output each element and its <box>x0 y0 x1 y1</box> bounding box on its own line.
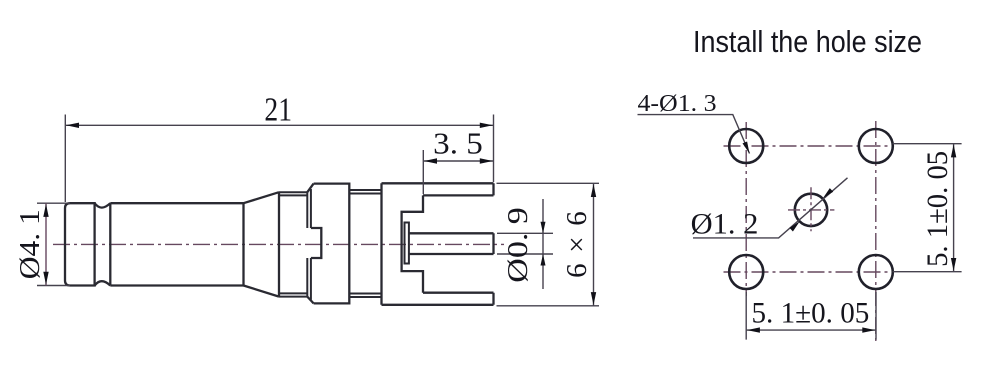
dim 21 line <box>65 124 493 126</box>
bottom pin upperside <box>423 293 494 305</box>
body cavity step <box>402 195 423 292</box>
hole pattern: row/column centerlines <box>724 145 895 147</box>
svg-text:5. 1±0. 05: 5. 1±0. 05 <box>921 151 954 267</box>
body top edge with top pin <box>382 182 494 184</box>
main cylinder <box>110 203 243 285</box>
dim 21 extension right <box>493 115 495 183</box>
label 4-dia1.3 arrow <box>743 142 750 154</box>
dim dia4.1 extensions <box>37 203 70 285</box>
dim dia0.9 line <box>542 199 544 289</box>
svg-text:3. 5: 3. 5 <box>433 126 483 161</box>
neck section double lines <box>349 190 381 297</box>
ring verticals interrupted by slot <box>307 189 311 300</box>
svg-text:Ø1. 2: Ø1. 2 <box>691 208 759 241</box>
collar chamfer bottom <box>307 297 313 304</box>
label 4-dia1.3 leader <box>638 115 750 154</box>
hole top-right <box>859 129 893 163</box>
dim right 5.1 line <box>953 144 955 272</box>
dim right 5.1 extensions <box>893 144 962 272</box>
body bottom edge with bottom pin <box>382 304 494 306</box>
collar block <box>314 184 350 304</box>
dim 3.5 arrows <box>424 158 493 163</box>
collar chamfer top <box>307 184 313 193</box>
hole top-left <box>729 129 763 163</box>
svg-text:6×6: 6×6 <box>561 211 593 278</box>
body left edge <box>380 183 382 304</box>
top pin underside <box>423 183 494 195</box>
svg-text:Ø4. 1: Ø4. 1 <box>14 209 46 279</box>
svg-text:5. 1±0. 05: 5. 1±0. 05 <box>752 297 870 330</box>
groove notch top <box>95 203 111 207</box>
dim 6x6 arrows <box>591 184 596 305</box>
dim right 5.1 arrows <box>951 144 956 271</box>
dim dia4.1 line <box>45 203 47 285</box>
hole center <box>795 194 827 226</box>
dim 6x6 extensions <box>497 183 600 305</box>
cone taper <box>244 192 280 296</box>
center hole crosshair <box>788 187 834 231</box>
hole bottom-right <box>859 255 893 289</box>
dim 21 extension left <box>64 115 66 203</box>
label dia1.2 arrows <box>790 188 834 231</box>
dim bottom 5.1 line <box>746 329 876 331</box>
dim 6x6 line <box>593 183 595 305</box>
centerline main axis <box>53 243 504 245</box>
dim dia4.1 arrows <box>43 204 48 285</box>
dim bottom 5.1 extensions <box>746 292 876 340</box>
groove right edge <box>109 203 111 285</box>
middle pin <box>409 233 494 254</box>
dim 3.5 line <box>423 160 493 162</box>
svg-text:4-Ø1. 3: 4-Ø1. 3 <box>638 91 717 117</box>
dim 21 arrows <box>66 123 493 128</box>
svg-text:Ø0. 9: Ø0. 9 <box>502 207 534 283</box>
hole bottom-left <box>729 255 763 289</box>
dim bottom 5.1 arrows <box>747 327 875 332</box>
tip cap outline <box>65 203 95 285</box>
groove notch bottom <box>95 281 111 285</box>
svg-text:21: 21 <box>264 91 292 128</box>
dim 3.5 extension left <box>422 150 424 194</box>
rotor slot notch <box>311 228 321 258</box>
ring section double lines <box>279 192 307 296</box>
dim dia0.9 extensions <box>497 233 553 254</box>
dim dia0.9 arrows <box>541 222 546 266</box>
pin plate <box>405 223 409 264</box>
svg-text:Install the hole size: Install the hole size <box>693 24 922 59</box>
label dia1.2 leader <box>693 178 848 238</box>
